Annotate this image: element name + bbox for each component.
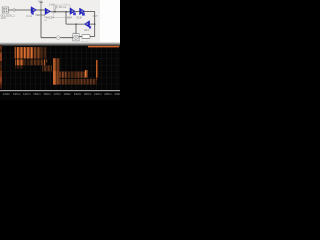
- svg-text:190m: 190m: [74, 92, 82, 96]
- svg-text:OUT: OUT: [93, 16, 98, 18]
- feedback row wire right: [90, 23, 95, 25]
- grid row lines: [0, 53, 120, 85]
- trace row1 high level line: [88, 46, 119, 48]
- right white panel strip: [100, 0, 121, 44]
- svg-text:4.0V: 4.0V: [38, 0, 43, 2]
- clock source box V1: [2, 7, 8, 13]
- probe stem wire: [54, 8, 56, 11]
- bottom wire: [41, 37, 73, 39]
- long transition bar: [96, 60, 97, 78]
- resistor to output wire: [90, 36, 95, 38]
- connector circle on wire: [13, 9, 16, 11]
- annotation box: [54, 5, 71, 18]
- feedback row wire left: [66, 23, 84, 25]
- lamp LP1: [73, 34, 79, 41]
- bright transition pair: [85, 70, 86, 78]
- svg-text:230m: 230m: [114, 92, 120, 96]
- svg-text:160m: 160m: [43, 92, 51, 96]
- buffer U1: [31, 7, 37, 14]
- svg-text:74HC04: 74HC04: [44, 15, 54, 19]
- trace row1-2 stripe block: [15, 47, 33, 58]
- trace row3 stripes: [15, 59, 24, 65]
- analyzer background: [0, 46, 120, 100]
- svg-text:.50 ms: .50 ms: [58, 5, 67, 9]
- buffer U2: [45, 8, 51, 15]
- blue mark 1: [73, 12, 76, 15]
- svg-text:170m: 170m: [53, 92, 61, 96]
- output vertical wire: [94, 12, 96, 37]
- blue mark 2: [82, 13, 85, 16]
- junction node D: [94, 23, 96, 25]
- meter probe ellipse: [56, 36, 60, 39]
- resistor R1: [82, 35, 90, 39]
- junction node B: [54, 11, 56, 13]
- svg-text:140m: 140m: [23, 92, 31, 96]
- svg-text:220m: 220m: [104, 92, 112, 96]
- svg-text:1kHz: 1kHz: [1, 17, 7, 20]
- svg-text:180m: 180m: [64, 92, 72, 96]
- panel divider line: [99, 0, 101, 44]
- U1 blue tag: [32, 12, 34, 14]
- trace row4 stripes: [15, 65, 24, 68]
- wire U1 to U2: [37, 9, 45, 11]
- probe marker circle: [55, 6, 57, 8]
- trace row6 stripes: [60, 79, 67, 85]
- window shadow gradient: [0, 42, 120, 46]
- U5 blue tag: [89, 26, 91, 28]
- svg-text:U2:B: U2:B: [76, 17, 82, 19]
- svg-text:U2:A: U2:A: [67, 16, 73, 19]
- junction node E: [75, 23, 77, 25]
- power rail symbol: [40, 2, 42, 10]
- lamp to resistor wire: [79, 36, 82, 38]
- time axis line: [0, 90, 120, 91]
- svg-text:120m: 120m: [3, 92, 11, 96]
- wire U2 to U3: [51, 11, 70, 13]
- channel label marks left margin: [0, 45, 2, 89]
- schematic canvas: [0, 0, 100, 44]
- wire U3 to U4: [75, 11, 79, 13]
- trace row5 stripes: [60, 72, 67, 78]
- svg-text:210m: 210m: [94, 92, 102, 96]
- wire source to U1: [9, 9, 32, 11]
- wire node E down to lamp: [75, 24, 77, 34]
- junction node C: [65, 11, 67, 13]
- inverter U5 (points left): [84, 21, 89, 28]
- feedback wire down from node A: [40, 10, 42, 38]
- junction node A: [40, 9, 42, 11]
- svg-text:150m: 150m: [33, 92, 41, 96]
- feedback wire down from node C: [65, 12, 67, 24]
- wire U4 to corner: [85, 11, 95, 13]
- svg-text:130m: 130m: [13, 92, 21, 96]
- axis tick labels: [3, 92, 123, 96]
- grid vertical lines: [5, 46, 117, 90]
- buffer U4: [80, 8, 85, 15]
- svg-text:200m: 200m: [84, 92, 92, 96]
- copper column left: [53, 58, 56, 84]
- buffer U3: [70, 8, 75, 15]
- svg-text:U2:C: U2:C: [84, 30, 90, 32]
- svg-text:U1:A: U1:A: [26, 15, 32, 18]
